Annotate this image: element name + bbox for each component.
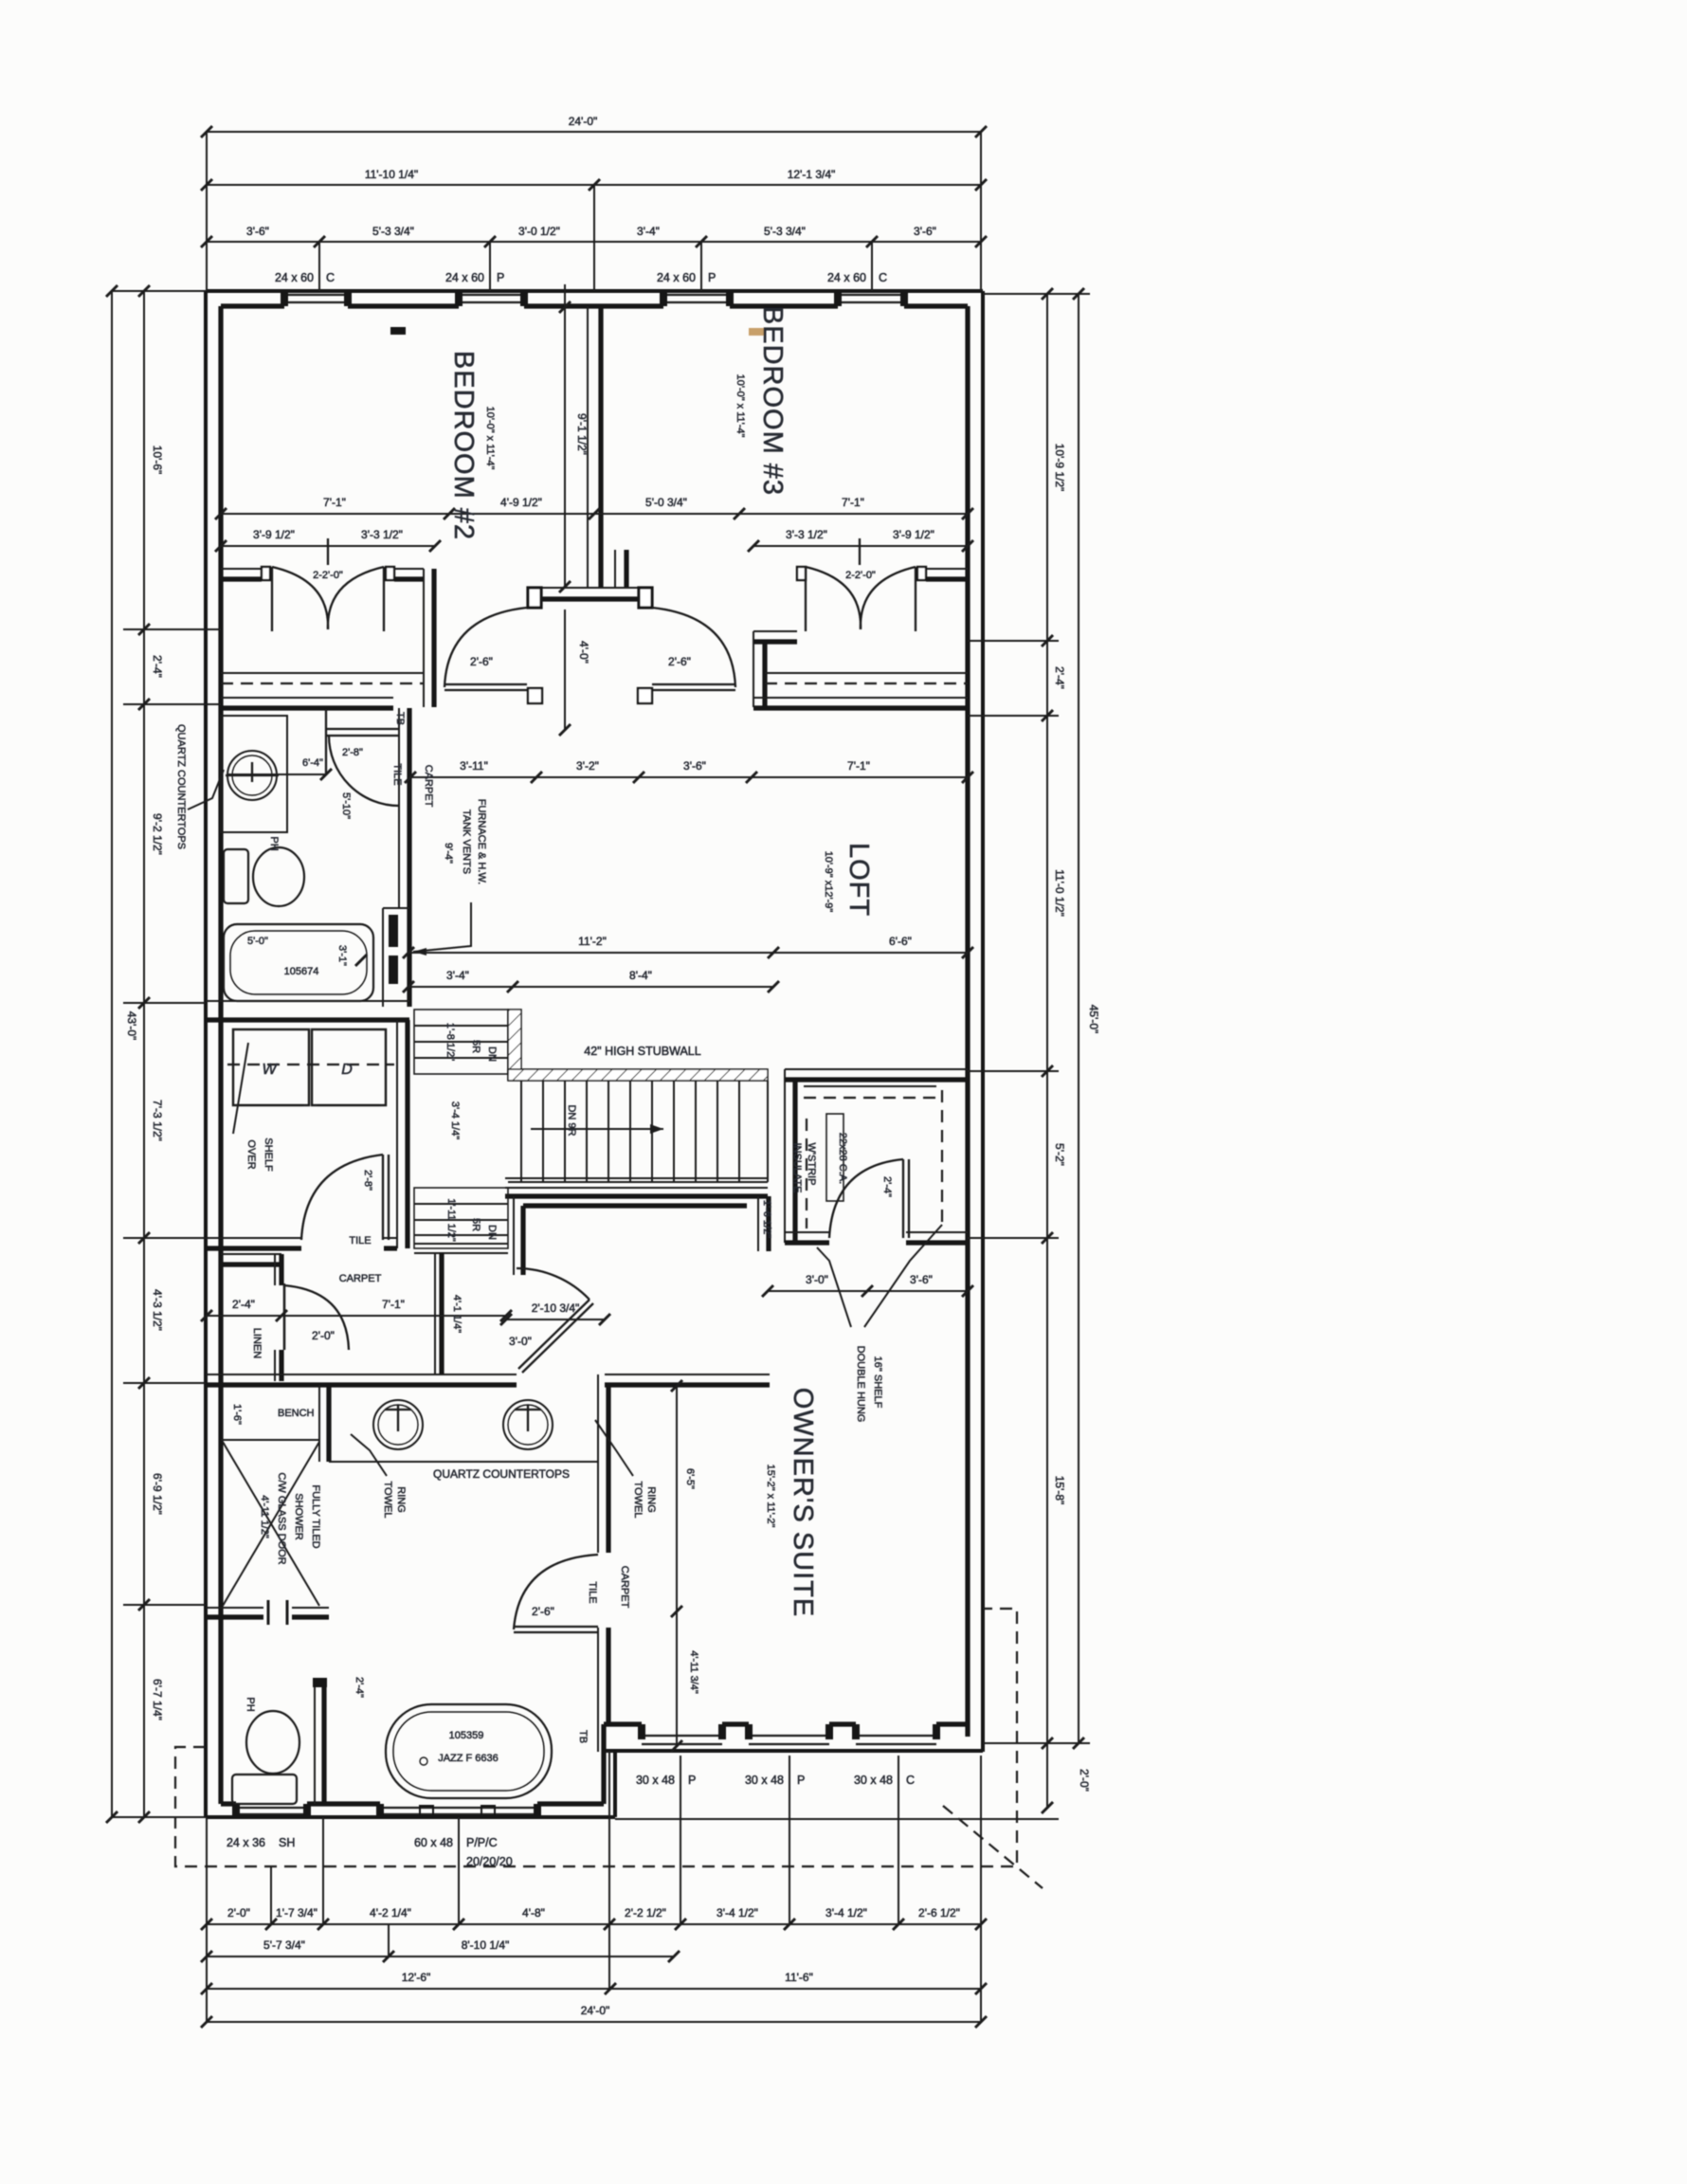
laundry door <box>383 1155 389 1240</box>
svg-text:C: C <box>326 271 335 284</box>
bedroom width dim row <box>221 513 968 515</box>
svg-text:2-2'-0": 2-2'-0" <box>313 570 343 581</box>
right exterior wall <box>981 291 985 1752</box>
svg-text:9'-4": 9'-4" <box>443 843 454 864</box>
svg-text:15'-8": 15'-8" <box>1053 1476 1066 1505</box>
svg-text:C/W GLASS DOOR: C/W GLASS DOOR <box>276 1472 287 1564</box>
window 24x60 P bedroom3 left <box>663 295 730 302</box>
svg-text:LINEN: LINEN <box>251 1328 263 1358</box>
WIC shelf dashed <box>804 1097 936 1099</box>
suite toilet <box>232 1774 297 1804</box>
stair south wall <box>505 1177 768 1179</box>
suite west wall lower <box>597 1628 599 1752</box>
svg-text:BEDROOM #2: BEDROOM #2 <box>448 351 479 540</box>
svg-text:5'-3 3/4": 5'-3 3/4" <box>372 225 414 238</box>
bedroom3 closet shelf and rod <box>765 672 968 674</box>
svg-text:2'-2 1/2": 2'-2 1/2" <box>625 1906 666 1920</box>
hall door to bedroom3 <box>652 684 735 690</box>
svg-text:5'-10": 5'-10" <box>340 792 352 819</box>
svg-text:P: P <box>688 1774 696 1787</box>
svg-text:CARPET: CARPET <box>423 765 434 808</box>
svg-text:1'-7 3/4": 1'-7 3/4" <box>276 1906 317 1920</box>
window 24x60 C bedroom2 left <box>284 295 348 302</box>
svg-text:3'-3 1/2": 3'-3 1/2" <box>786 528 827 541</box>
svg-text:DOUBLE HUNG: DOUBLE HUNG <box>855 1346 866 1423</box>
svg-text:3'-11": 3'-11" <box>460 759 488 773</box>
svg-text:24 x 60: 24 x 60 <box>445 271 484 284</box>
svg-text:3'-0": 3'-0" <box>806 1273 828 1286</box>
WIC left wall <box>784 1069 786 1243</box>
linen closet top wall <box>221 1253 281 1255</box>
svg-text:OVER: OVER <box>245 1139 257 1169</box>
step wall between bath and owner's suite bottom <box>613 1751 617 1817</box>
linen east wall <box>274 1254 276 1285</box>
svg-text:1'-6": 1'-6" <box>231 1404 243 1425</box>
lower 5R flight <box>414 1188 508 1248</box>
svg-text:20/20/20: 20/20/20 <box>466 1855 513 1868</box>
svg-text:2'-6 1/2": 2'-6 1/2" <box>918 1906 960 1920</box>
svg-text:24 x 36: 24 x 36 <box>227 1836 265 1849</box>
svg-text:QUARTZ COUNTERTOPS: QUARTZ COUNTERTOPS <box>433 1467 570 1481</box>
bath vanity <box>221 716 287 832</box>
svg-text:2'-4": 2'-4" <box>354 1677 365 1698</box>
svg-text:SHELF: SHELF <box>263 1137 274 1172</box>
bath door <box>325 709 327 774</box>
vanity sinks <box>373 1400 423 1449</box>
WIC door <box>903 1159 909 1238</box>
svg-text:6'-5": 6'-5" <box>684 1468 696 1489</box>
svg-text:3'-6": 3'-6" <box>914 225 936 238</box>
svg-text:3'-4": 3'-4" <box>446 969 469 982</box>
svg-text:2'-0": 2'-0" <box>1078 1769 1091 1792</box>
vanity left stub wall <box>318 1385 320 1462</box>
svg-text:3'-4 1/2": 3'-4 1/2" <box>825 1906 867 1920</box>
svg-text:3'-6": 3'-6" <box>246 225 269 238</box>
svg-text:10'-9 1/2": 10'-9 1/2" <box>1053 444 1066 492</box>
svg-text:12'-1 3/4": 12'-1 3/4" <box>788 168 836 181</box>
bath tub 105674 <box>224 924 373 1001</box>
svg-text:3'-1": 3'-1" <box>336 945 348 966</box>
row3 <box>207 241 981 243</box>
laundry leader <box>233 1043 248 1134</box>
svg-text:4'-1 1/4": 4'-1 1/4" <box>451 1295 463 1333</box>
left exterior wall <box>204 291 208 1817</box>
shower bench line <box>221 1439 319 1441</box>
hall T-crossbar wall <box>528 587 652 589</box>
main stair treads <box>508 1081 768 1182</box>
svg-text:4'-11 1/2": 4'-11 1/2" <box>259 1495 270 1538</box>
svg-text:9'-1 1/2": 9'-1 1/2" <box>575 413 589 455</box>
svg-text:7'-3 1/2": 7'-3 1/2" <box>151 1100 164 1141</box>
svg-text:LOFT: LOFT <box>843 843 874 917</box>
svg-text:105359: 105359 <box>449 1730 484 1741</box>
svg-text:P: P <box>708 271 716 284</box>
svg-text:4'-11 3/4": 4'-11 3/4" <box>688 1650 699 1694</box>
svg-text:7'-1": 7'-1" <box>842 496 864 509</box>
svg-text:2'-4": 2'-4" <box>1053 666 1066 689</box>
hall vertical dims <box>564 284 566 587</box>
towel ring leaders <box>351 1434 387 1476</box>
stair direction arrow <box>531 1128 663 1130</box>
svg-text:42" HIGH STUBWALL: 42" HIGH STUBWALL <box>584 1045 700 1058</box>
svg-text:22x28 C.A.: 22x28 C.A. <box>837 1133 848 1184</box>
under-stair wall <box>414 1243 508 1245</box>
bath toilet <box>224 849 248 903</box>
vanity counter <box>329 1461 598 1463</box>
svg-text:3'-2": 3'-2" <box>576 759 599 773</box>
svg-text:2'-6": 2'-6" <box>470 655 493 668</box>
row1 24'-0" <box>207 131 981 133</box>
svg-text:15'-2" x 11'-2": 15'-2" x 11'-2" <box>765 1465 776 1528</box>
upper 5R flight <box>414 1010 508 1074</box>
bath bottom wall <box>206 1000 409 1002</box>
svg-text:5R: 5R <box>470 1218 481 1231</box>
svg-text:1'-8 1/2": 1'-8 1/2" <box>444 1023 456 1061</box>
svg-text:11'-10 1/4": 11'-10 1/4" <box>365 168 418 181</box>
svg-text:7'-1": 7'-1" <box>382 1298 405 1311</box>
row2 <box>207 184 981 186</box>
window 60x48 P/P/C tub <box>380 1808 537 1814</box>
svg-text:TILE: TILE <box>587 1581 598 1603</box>
bottom exterior wall (bath side) inner with window gaps <box>221 1801 604 1806</box>
svg-text:2-2'-0": 2-2'-0" <box>845 570 876 581</box>
svg-text:7'-1": 7'-1" <box>323 496 346 509</box>
svg-text:W'STRIP: W'STRIP <box>806 1143 817 1186</box>
svg-text:2'-0": 2'-0" <box>312 1329 335 1342</box>
svg-text:3'-4": 3'-4" <box>637 225 660 238</box>
svg-text:INSULATE: INSULATE <box>791 1143 803 1193</box>
hall width dim row <box>410 776 968 778</box>
svg-text:24 x 60: 24 x 60 <box>657 271 696 284</box>
WIC top wall <box>785 1068 968 1070</box>
toilet stub wall suite <box>314 1684 316 1804</box>
svg-text:6'-4": 6'-4" <box>302 757 323 769</box>
svg-text:4'-9 1/2": 4'-9 1/2" <box>500 496 542 509</box>
svg-text:11'-0 1/2": 11'-0 1/2" <box>1053 869 1066 917</box>
svg-text:2'-10 3/4": 2'-10 3/4" <box>532 1301 580 1315</box>
svg-text:105674: 105674 <box>284 966 319 977</box>
svg-text:2'-6": 2'-6" <box>668 655 691 668</box>
svg-text:TILE: TILE <box>391 763 403 785</box>
svg-text:QUARTZ COUNTERTOPS: QUARTZ COUNTERTOPS <box>175 724 187 849</box>
svg-text:4'-8": 4'-8" <box>522 1906 545 1920</box>
laundry dashed rod <box>227 1064 394 1065</box>
WIC shelf leader lines <box>864 1225 942 1327</box>
svg-text:TB: TB <box>394 712 406 725</box>
svg-text:FURNACE & H.W.: FURNACE & H.W. <box>476 799 487 884</box>
bedroom3 closet double doors <box>805 567 807 631</box>
suite west wall upper <box>597 1374 599 1553</box>
svg-text:D: D <box>341 1062 353 1078</box>
svg-text:11'-2": 11'-2" <box>578 935 607 948</box>
svg-text:TOWEL: TOWEL <box>382 1482 393 1519</box>
svg-text:10'-6": 10'-6" <box>151 446 164 475</box>
vestibule west wall <box>434 1253 436 1374</box>
svg-text:PH: PH <box>245 1697 256 1711</box>
shower X glass <box>223 1442 319 1606</box>
svg-text:7'-1": 7'-1" <box>847 759 870 773</box>
svg-text:9'-2 1/2": 9'-2 1/2" <box>151 813 164 855</box>
laundry right wall <box>396 1020 398 1248</box>
svg-text:P: P <box>497 271 504 284</box>
svg-text:RING: RING <box>395 1486 407 1513</box>
bedroom2 closet bottom wall <box>221 697 393 699</box>
svg-text:5'-3 3/4": 5'-3 3/4" <box>764 225 806 238</box>
laundry bottom wall <box>206 1237 301 1239</box>
svg-text:24 x 60: 24 x 60 <box>275 271 314 284</box>
svg-text:2'-6": 2'-6" <box>532 1605 554 1618</box>
vestibule south wall (owner bath north) <box>206 1374 517 1375</box>
svg-text:C: C <box>879 271 887 284</box>
loft dims <box>408 952 968 954</box>
svg-text:2'-0": 2'-0" <box>227 1906 250 1920</box>
top exterior wall outer line <box>206 289 983 293</box>
bedroom2 closet front wall <box>221 568 262 570</box>
svg-text:5'-0": 5'-0" <box>247 936 268 947</box>
WIC attic access 22x28 CA <box>826 1114 843 1201</box>
left hall side wall stub <box>423 630 425 707</box>
svg-text:3'-9 1/2": 3'-9 1/2" <box>893 528 934 541</box>
owner bath entry diagonal door <box>518 1300 593 1373</box>
svg-text:FULLY TILED: FULLY TILED <box>310 1484 321 1548</box>
svg-text:3'-3 1/2": 3'-3 1/2" <box>361 528 403 541</box>
svg-text:2'-4": 2'-4" <box>881 1176 893 1197</box>
bedroom2 closet shelf and rod <box>221 672 424 674</box>
svg-text:DN 9R: DN 9R <box>566 1104 577 1136</box>
tiny ceiling marks on inner top wall <box>390 327 406 335</box>
svg-text:8'-10 1/4": 8'-10 1/4" <box>462 1938 510 1952</box>
stub wall hatch vertical <box>508 1010 521 1080</box>
svg-text:5'-7 3/4": 5'-7 3/4" <box>263 1938 305 1952</box>
window 24x60 C bedroom3 right <box>838 295 904 302</box>
svg-text:10'-9" x12'-9": 10'-9" x12'-9" <box>823 851 834 913</box>
suite door 2'-6 <box>514 1627 598 1632</box>
window 30x48 P suite1 <box>642 1736 722 1744</box>
window 24x60 P bedroom2 right <box>459 295 524 302</box>
svg-text:43'-0": 43'-0" <box>125 1011 138 1041</box>
stub wall hatch horizontal 42in <box>508 1069 768 1081</box>
svg-text:3'-9 1/2": 3'-9 1/2" <box>253 528 295 541</box>
svg-text:BEDROOM #3: BEDROOM #3 <box>757 306 788 496</box>
shower bottom wall with door gap <box>206 1607 263 1609</box>
svg-text:DN: DN <box>486 1225 498 1240</box>
svg-text:4'-3 1/2": 4'-3 1/2" <box>151 1289 164 1331</box>
svg-text:24'-0": 24'-0" <box>569 115 598 128</box>
bedroom3 closet left L-wall <box>753 630 797 632</box>
svg-text:10'-0" x 11'-4": 10'-0" x 11'-4" <box>735 374 746 438</box>
svg-text:30 x 48: 30 x 48 <box>636 1774 675 1787</box>
svg-text:OWNER'S SUITE: OWNER'S SUITE <box>788 1388 818 1618</box>
svg-text:16" SHELF: 16" SHELF <box>872 1356 883 1409</box>
svg-text:C: C <box>906 1774 915 1787</box>
svg-text:5'-0 3/4": 5'-0 3/4" <box>645 496 687 509</box>
svg-text:2'-8": 2'-8" <box>342 747 363 758</box>
dryer <box>312 1029 386 1105</box>
svg-text:8'-4": 8'-4" <box>629 969 652 982</box>
svg-text:24 x 60: 24 x 60 <box>827 271 866 284</box>
svg-text:60 x 48: 60 x 48 <box>414 1836 453 1849</box>
svg-text:6'-9 1/2": 6'-9 1/2" <box>151 1473 164 1515</box>
bottom exterior wall (bath side) outer <box>206 1815 615 1819</box>
bedroom2 closet double doors <box>271 567 273 631</box>
linen door <box>283 1285 285 1350</box>
svg-text:24'-0": 24'-0" <box>581 2004 610 2017</box>
svg-text:P/P/C: P/P/C <box>466 1836 498 1849</box>
svg-text:3'-6": 3'-6" <box>910 1273 933 1286</box>
svg-text:DN: DN <box>486 1046 498 1062</box>
window 30x48 C suite3 <box>856 1736 936 1744</box>
svg-text:6'-6": 6'-6" <box>889 935 912 948</box>
svg-text:1'-6 1/2": 1'-6 1/2" <box>761 1200 772 1238</box>
svg-text:30 x 48: 30 x 48 <box>854 1774 893 1787</box>
owner's suite bottom wall outer <box>604 1749 983 1753</box>
svg-text:3'-0": 3'-0" <box>509 1335 532 1348</box>
svg-text:TANK VENTS: TANK VENTS <box>461 810 472 874</box>
hall door to bedroom2 <box>444 684 527 690</box>
svg-text:4'-0": 4'-0" <box>577 641 590 664</box>
svg-text:P: P <box>797 1774 805 1787</box>
svg-text:2'-4": 2'-4" <box>151 655 164 678</box>
svg-text:CARPET: CARPET <box>339 1273 382 1284</box>
window 30x48 P suite2 <box>749 1736 829 1744</box>
svg-text:TB: TB <box>577 1730 589 1743</box>
svg-text:10'-0" x 11'-4": 10'-0" x 11'-4" <box>484 407 496 470</box>
freestanding tub JAZZ F <box>386 1704 552 1798</box>
svg-text:12'-6": 12'-6" <box>402 1971 431 1984</box>
svg-text:CARPET: CARPET <box>619 1566 630 1609</box>
svg-text:4'-2 1/4": 4'-2 1/4" <box>370 1906 411 1920</box>
svg-text:3'-6": 3'-6" <box>683 759 706 773</box>
svg-text:1'-11 1/2": 1'-11 1/2" <box>445 1198 457 1242</box>
svg-text:BENCH: BENCH <box>278 1408 315 1419</box>
svg-text:2'-4": 2'-4" <box>232 1298 255 1311</box>
bath sink <box>227 751 277 800</box>
svg-text:5R: 5R <box>470 1040 481 1053</box>
washer <box>233 1029 309 1105</box>
svg-text:JAZZ F 6636: JAZZ F 6636 <box>438 1753 499 1764</box>
svg-text:3'-4 1/4": 3'-4 1/4" <box>449 1101 461 1139</box>
svg-text:6'-7 1/4": 6'-7 1/4" <box>151 1679 164 1720</box>
svg-text:RING: RING <box>645 1486 657 1513</box>
svg-text:W: W <box>262 1062 278 1078</box>
top exterior wall inner line <box>221 303 968 308</box>
svg-text:TILE: TILE <box>349 1235 371 1247</box>
svg-text:11'-6": 11'-6" <box>785 1971 813 1984</box>
svg-text:TOWEL: TOWEL <box>632 1482 644 1519</box>
bedroom3 closet front wall right <box>926 568 968 570</box>
furnace chase <box>382 908 384 1007</box>
bedroom2 closet right wall <box>394 568 424 570</box>
bedroom3 closet bottom wall <box>753 697 968 699</box>
svg-text:45'-0": 45'-0" <box>1087 1005 1100 1034</box>
bedroom divider wall <box>587 306 589 587</box>
owner's suite bottom wall inner with window gaps <box>604 1721 968 1726</box>
svg-text:2'-8": 2'-8" <box>362 1170 373 1191</box>
vestibule north wall <box>513 1196 515 1275</box>
window 24x36 SH bath <box>236 1808 307 1814</box>
svg-text:SH: SH <box>279 1836 295 1849</box>
svg-text:30 x 48: 30 x 48 <box>745 1774 784 1787</box>
svg-text:PH: PH <box>268 836 280 850</box>
svg-text:SHOWER: SHOWER <box>293 1493 304 1540</box>
svg-text:5'-2": 5'-2" <box>1053 1143 1066 1166</box>
WIC bottom wall <box>785 1231 829 1233</box>
stair-WIC passage wall <box>757 1196 759 1251</box>
bath right wall <box>398 708 400 908</box>
suite interior dim line <box>676 1386 678 1746</box>
suite north wall dim line 3'-0 3'-6 <box>768 1290 968 1292</box>
closet dim rows <box>221 545 435 547</box>
svg-text:3'-4 1/2": 3'-4 1/2" <box>717 1906 758 1920</box>
svg-text:3'-0 1/2": 3'-0 1/2" <box>518 225 560 238</box>
